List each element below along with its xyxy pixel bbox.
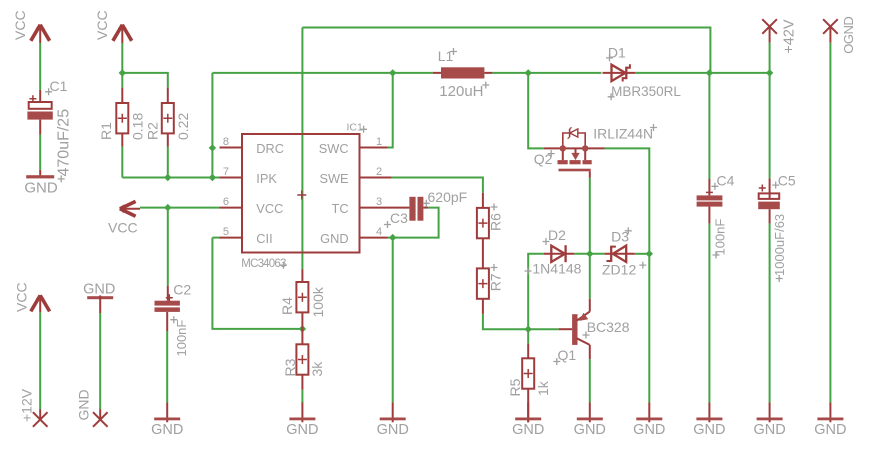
svg-text:+42V: +42V: [782, 19, 798, 54]
svg-text:GND: GND: [814, 422, 846, 438]
svg-text:VCC: VCC: [108, 219, 138, 235]
svg-text:ZD12: ZD12: [602, 261, 636, 277]
svg-text:GND: GND: [151, 422, 183, 438]
svg-text:GND: GND: [83, 282, 115, 298]
svg-text:100k: 100k: [310, 286, 326, 317]
svg-text:IC1: IC1: [347, 122, 364, 134]
svg-text:GND: GND: [693, 422, 725, 438]
svg-text:BC328: BC328: [587, 319, 630, 335]
svg-text:R1: R1: [98, 122, 114, 140]
svg-text:120uH: 120uH: [439, 83, 483, 100]
svg-text:R6: R6: [487, 213, 503, 231]
svg-text:8: 8: [223, 136, 229, 148]
svg-text:R2: R2: [144, 122, 160, 140]
svg-text:MBR350RL: MBR350RL: [611, 84, 681, 99]
svg-text:R4: R4: [279, 297, 295, 315]
svg-text:1k: 1k: [535, 380, 551, 396]
svg-text:4: 4: [376, 226, 382, 238]
svg-text:C2: C2: [173, 282, 191, 298]
svg-text:IPK: IPK: [256, 171, 277, 186]
svg-text:VCC: VCC: [12, 10, 28, 40]
svg-text:IRLIZ44N: IRLIZ44N: [593, 126, 653, 142]
svg-text:GND: GND: [753, 422, 785, 438]
svg-text:TC: TC: [332, 201, 349, 216]
svg-text:2: 2: [376, 166, 382, 178]
svg-text:C5: C5: [778, 173, 796, 189]
svg-text:GND: GND: [512, 422, 544, 438]
svg-text:OGND: OGND: [841, 17, 856, 54]
svg-text:R7: R7: [487, 273, 503, 291]
svg-text:+12V: +12V: [19, 388, 35, 422]
svg-text:L1: L1: [438, 48, 454, 64]
svg-text:0.22: 0.22: [175, 113, 191, 140]
svg-text:GND: GND: [320, 231, 348, 246]
svg-text:1N4148: 1N4148: [532, 261, 581, 277]
svg-text:7: 7: [223, 166, 229, 178]
svg-text:SWC: SWC: [319, 141, 349, 156]
svg-text:GND: GND: [574, 422, 606, 438]
svg-text:100nF: 100nF: [712, 219, 727, 256]
svg-text:3: 3: [376, 196, 382, 208]
svg-text:1: 1: [376, 136, 382, 148]
svg-text:0.18: 0.18: [129, 113, 145, 140]
svg-text:3k: 3k: [309, 361, 325, 377]
svg-text:R5: R5: [507, 378, 523, 396]
svg-text:GND: GND: [377, 422, 409, 438]
svg-text:5: 5: [223, 226, 229, 238]
svg-text:GND: GND: [76, 389, 92, 420]
svg-text:DRC: DRC: [256, 141, 284, 156]
svg-text:R3: R3: [282, 358, 298, 376]
svg-text:CII: CII: [256, 231, 272, 246]
svg-text:VCC: VCC: [14, 282, 30, 312]
svg-text:100nF: 100nF: [174, 320, 189, 357]
svg-text:620pF: 620pF: [428, 189, 468, 205]
svg-text:GND: GND: [286, 422, 318, 438]
svg-text:C4: C4: [717, 173, 735, 189]
svg-text:C1: C1: [50, 78, 68, 94]
svg-text:1000uF/63: 1000uF/63: [772, 214, 787, 276]
svg-text:GND: GND: [24, 179, 58, 196]
svg-text:6: 6: [223, 196, 229, 208]
svg-text:VCC: VCC: [256, 201, 283, 216]
svg-text:MC34063: MC34063: [241, 258, 286, 270]
svg-text:D2: D2: [548, 227, 566, 243]
svg-text:SWE: SWE: [319, 171, 348, 186]
svg-text:C3: C3: [390, 210, 408, 226]
svg-text:VCC: VCC: [94, 10, 110, 40]
svg-text:Q1: Q1: [558, 347, 577, 363]
svg-text:GND: GND: [633, 422, 665, 438]
svg-text:470uF/25: 470uF/25: [56, 109, 73, 177]
